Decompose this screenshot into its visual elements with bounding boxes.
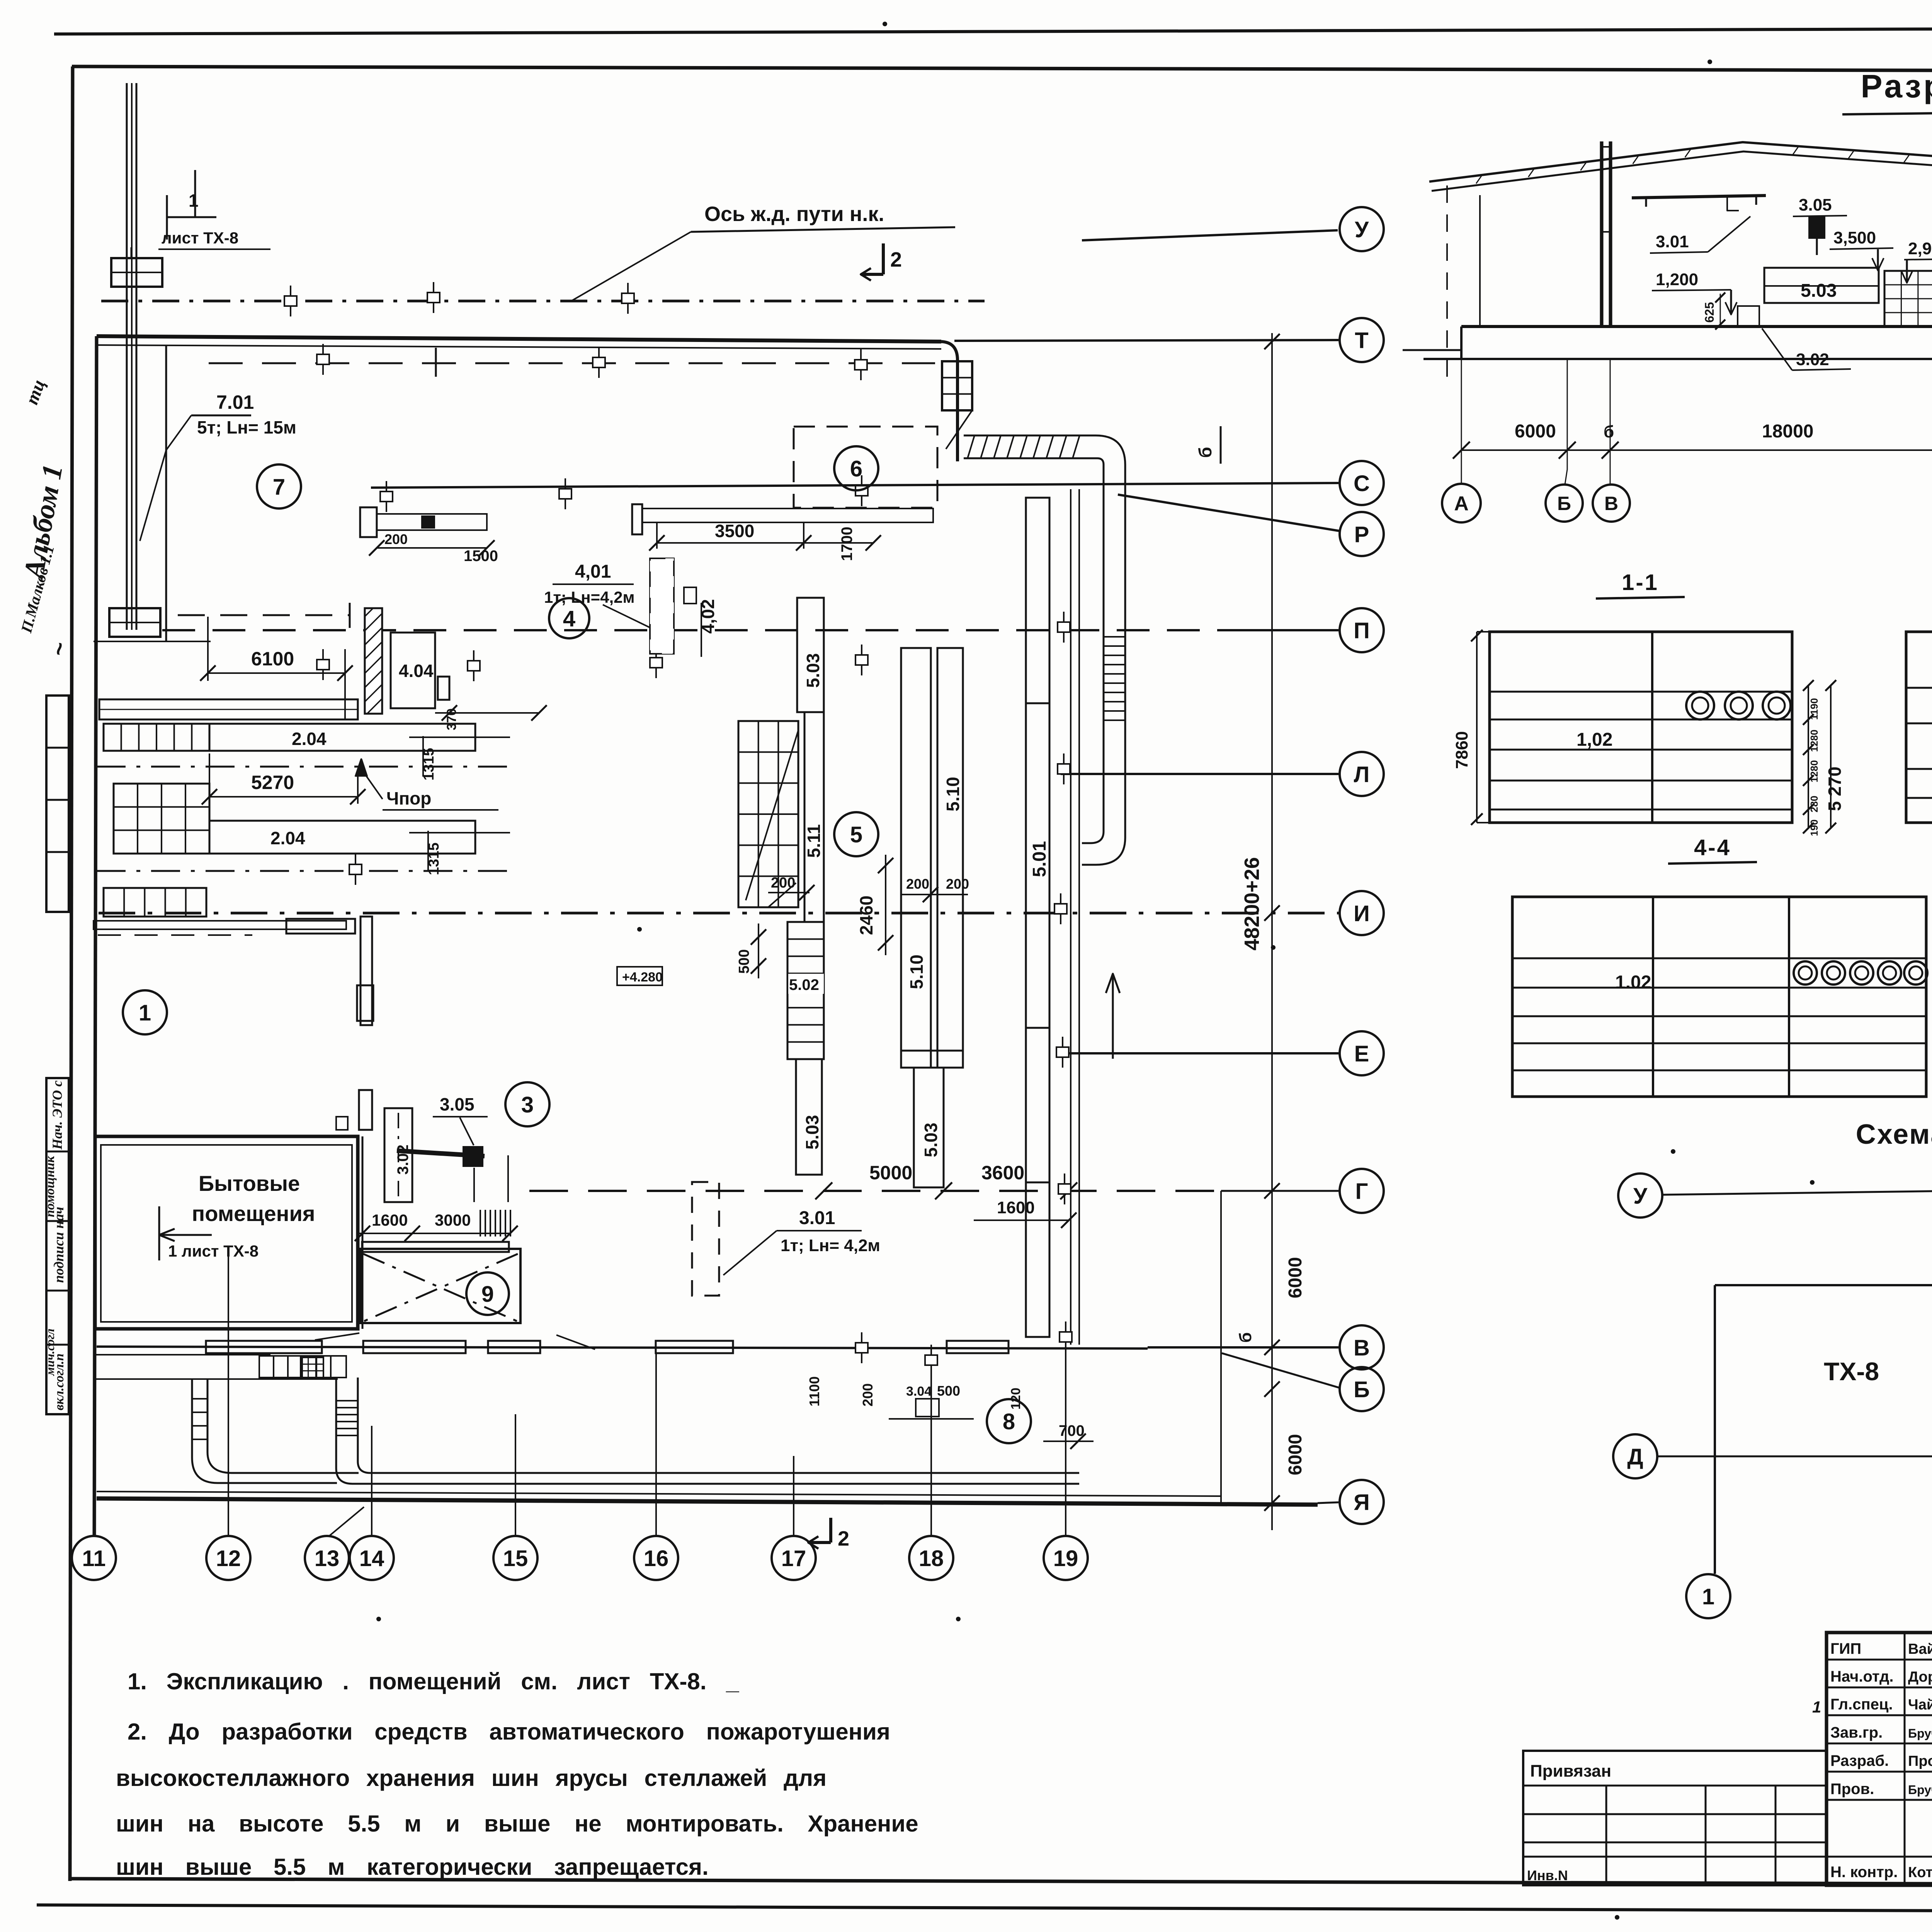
- signature table grid: [1904, 1633, 1906, 1885]
- svg-text:Зав.гр.: Зав.гр.: [1830, 1724, 1883, 1741]
- svg-text:1.02: 1.02: [1615, 972, 1651, 993]
- svg-text:1т; Lн=4,2м: 1т; Lн=4,2м: [544, 588, 635, 606]
- svg-text:3.01: 3.01: [1656, 232, 1689, 251]
- svg-text:Бручиловская: Бручиловская: [1908, 1783, 1932, 1797]
- svg-text:5.03: 5.03: [921, 1122, 941, 1157]
- bottom axis circle 16: [634, 1536, 678, 1580]
- svg-text:5 270: 5 270: [1825, 767, 1845, 811]
- hoist 3.05 beam and trolley: [397, 1151, 485, 1156]
- svg-text:1: 1: [139, 1000, 151, 1026]
- crane runway 7.01 rails: [126, 83, 128, 630]
- svg-text:Р: Р: [1354, 522, 1369, 547]
- svg-text:Дорош: Дорош: [1908, 1669, 1932, 1685]
- svg-text:4,01: 4,01: [575, 561, 611, 582]
- axis b tick near C: [1220, 426, 1222, 464]
- svg-text:6000: 6000: [1285, 1257, 1306, 1298]
- room Бытовые помещения: [95, 1136, 358, 1329]
- door swing marks: [315, 1333, 359, 1340]
- svg-text:13: 13: [315, 1546, 340, 1571]
- svg-text:11: 11: [82, 1546, 105, 1571]
- dashed hoist zone 4.02: [650, 558, 674, 654]
- svg-text:Т: Т: [1355, 328, 1368, 353]
- svg-text:19: 19: [1053, 1546, 1078, 1571]
- up arrow near axis E: [1112, 974, 1114, 1059]
- svg-text:2,960: 2,960: [1908, 239, 1932, 258]
- sheet frame border: [72, 66, 1932, 72]
- bottom axis circle 11: [72, 1536, 116, 1580]
- section dimension line: [1461, 449, 1932, 451]
- grid rack 5.11: [738, 721, 798, 907]
- svg-text:1: 1: [1812, 1698, 1821, 1716]
- svg-text:6000: 6000: [1515, 421, 1556, 442]
- circle 4 tag: [549, 598, 589, 638]
- svg-text:5270: 5270: [251, 772, 294, 793]
- svg-text:1 лист ТХ-8: 1 лист ТХ-8: [168, 1242, 259, 1260]
- svg-text:В: В: [1354, 1335, 1370, 1361]
- svg-text:14: 14: [359, 1546, 384, 1571]
- bottom axis circle 17: [772, 1536, 816, 1580]
- bottom axis circle 14: [350, 1536, 394, 1580]
- svg-text:200: 200: [946, 876, 969, 892]
- rack strip row A: [99, 699, 358, 719]
- rack 5.02 segmented: [787, 922, 824, 1059]
- rack 5.03 lower-mid: [914, 1068, 944, 1187]
- svg-text:высокостеллажного хранения: высокостеллажного хранения шин ярусы сте…: [116, 1765, 827, 1791]
- svg-text:1,02: 1,02: [1577, 730, 1612, 750]
- svg-text:Е: Е: [1354, 1041, 1369, 1066]
- svg-text:б: б: [1236, 1332, 1255, 1343]
- section wall axis Б-В: [1600, 141, 1604, 327]
- inner wall line left: [165, 345, 167, 641]
- svg-text:Я: Я: [1354, 1490, 1370, 1515]
- scheme circle У left: [1618, 1173, 1662, 1218]
- svg-text:1190: 1190: [1808, 698, 1820, 720]
- svg-text:мич.согл: мич.согл: [43, 1328, 57, 1376]
- svg-text:9: 9: [481, 1282, 494, 1307]
- roof outer line: [1429, 142, 1932, 185]
- dim 1315 row2: [427, 831, 429, 871]
- wall axis В hatched segments: [97, 1347, 1148, 1349]
- scan specks: [883, 22, 887, 26]
- svg-text:5.03: 5.03: [803, 653, 823, 688]
- rack 2.04 row 1: [209, 724, 475, 751]
- circle 5 tag: [834, 812, 878, 856]
- svg-text:Чпор: Чпор: [386, 788, 431, 808]
- svg-text:700: 700: [1059, 1422, 1085, 1439]
- svg-text:Привязан: Привязан: [1530, 1762, 1611, 1781]
- svg-text:Пров.: Пров.: [1830, 1781, 1874, 1798]
- svg-text:подписи нач: подписи нач: [51, 1207, 66, 1283]
- svg-text:3600: 3600: [981, 1162, 1024, 1184]
- circle 1 room tag: [123, 990, 167, 1034]
- bottom axis circle 12: [206, 1536, 250, 1580]
- pedestal 3.02 section: [1738, 306, 1759, 327]
- svg-text:190: 190: [1808, 820, 1820, 836]
- svg-text:1280: 1280: [1808, 730, 1820, 752]
- svg-text:Чайка: Чайка: [1908, 1697, 1932, 1713]
- dim 6100: [208, 672, 345, 674]
- svg-text:6000: 6000: [1285, 1434, 1306, 1475]
- wall axis T top: [97, 336, 941, 342]
- svg-text:200: 200: [860, 1383, 876, 1406]
- cell rack row 3: [104, 888, 206, 917]
- scheme axis У line: [1662, 1185, 1932, 1195]
- section 4-4 tyre circles: [1794, 961, 1817, 985]
- svg-text:2.04: 2.04: [270, 828, 305, 848]
- svg-text:1: 1: [1702, 1584, 1714, 1609]
- svg-text:1: 1: [189, 190, 199, 211]
- svg-text:5.10: 5.10: [943, 777, 963, 811]
- equipment box 5.03 left section: [1764, 268, 1879, 303]
- svg-text:Бытовые: Бытовые: [199, 1171, 300, 1196]
- runway top buffer stop: [111, 258, 162, 287]
- grid rack 5.02 section: [1884, 271, 1932, 327]
- svg-text:1100: 1100: [806, 1376, 822, 1406]
- svg-text:1,200: 1,200: [1656, 270, 1698, 289]
- svg-text:Схема совмещения листов: Схема совмещения листов: [1856, 1119, 1932, 1150]
- corridor walls: [357, 1136, 359, 1329]
- railway axis dash-dot line: [101, 300, 985, 303]
- svg-text:1280: 1280: [1808, 760, 1820, 782]
- svg-text:Вайсбанд: Вайсбанд: [1908, 1641, 1932, 1657]
- svg-text:ТХ-8: ТХ-8: [1824, 1357, 1879, 1386]
- rack 5.03 lower-left: [796, 1059, 822, 1175]
- circle 6 tag with dashed zone: [794, 427, 937, 508]
- svg-text:1600: 1600: [372, 1211, 408, 1229]
- svg-text:18: 18: [919, 1546, 944, 1571]
- svg-text:помещения: помещения: [192, 1201, 315, 1226]
- rack 5.10 left: [901, 648, 931, 1068]
- svg-text:В: В: [1604, 493, 1618, 514]
- circle 3 tag: [505, 1082, 549, 1126]
- svg-text:1700: 1700: [838, 527, 855, 561]
- section 1-1 left dim 7860: [1476, 632, 1478, 823]
- axis E line and circle: [1059, 1052, 1338, 1054]
- svg-text:Г: Г: [1355, 1179, 1368, 1204]
- wall axis Я bottom: [97, 1498, 1318, 1505]
- column symbols mid row: [386, 481, 387, 512]
- axis Г dashed line and circle: [529, 1190, 1221, 1192]
- wall corner rounded top-right: [941, 342, 957, 461]
- svg-text:5.01: 5.01: [1029, 841, 1050, 877]
- hoist trolley 3.05 section: [1808, 216, 1825, 239]
- svg-text:5.03: 5.03: [802, 1115, 822, 1150]
- scheme axis Д: [1658, 1456, 1932, 1458]
- svg-text:П: П: [1354, 618, 1370, 643]
- rack 5.01 long vertical: [1026, 498, 1049, 1337]
- axis Л line and circle: [1061, 773, 1338, 775]
- svg-text:У: У: [1633, 1184, 1648, 1209]
- svg-text:5: 5: [850, 822, 862, 847]
- svg-text:625: 625: [1702, 302, 1716, 323]
- svg-text:1т; Lн= 4,2м: 1т; Lн= 4,2м: [781, 1236, 880, 1255]
- svg-text:3.05: 3.05: [1799, 196, 1832, 214]
- stair hatch band: [480, 1210, 481, 1236]
- svg-text:Нач. ЭТО с: Нач. ЭТО с: [49, 1080, 65, 1150]
- svg-text:1-1: 1-1: [1622, 570, 1659, 595]
- svg-text:7.01: 7.01: [216, 391, 254, 413]
- label 625 vertical: [1720, 294, 1721, 327]
- rack 2.04 row 2: [209, 821, 475, 854]
- left wall axis 11: [94, 336, 97, 1536]
- axis И dash-dot line and circle: [99, 912, 1338, 915]
- scheme circle 1: [1686, 1574, 1730, 1618]
- marker Чпор: [355, 759, 367, 777]
- cell rack row 1: [104, 724, 209, 751]
- svg-text:1315: 1315: [421, 748, 437, 781]
- svg-text:+4.280: +4.280: [622, 970, 663, 985]
- vertical line x3160: [1220, 1191, 1222, 1505]
- svg-text:6100: 6100: [251, 648, 294, 670]
- paper bottom edge: [37, 1905, 1932, 1913]
- svg-text:3.02: 3.02: [1796, 350, 1829, 369]
- svg-text:Котенко: Котенко: [1908, 1864, 1932, 1881]
- svg-text:4: 4: [563, 606, 575, 631]
- svg-text:8: 8: [1003, 1409, 1015, 1434]
- axis T circle: [954, 340, 1338, 341]
- section 1-1 rack box: [1490, 632, 1792, 823]
- svg-text:б: б: [1195, 447, 1215, 458]
- dashed line below rail: [209, 362, 935, 364]
- svg-text:18000: 18000: [1762, 421, 1813, 442]
- svg-text:6: 6: [850, 456, 862, 481]
- bottom axis circle 18: [909, 1536, 953, 1580]
- section axis circle В: [1610, 450, 1611, 485]
- svg-text:12: 12: [216, 1546, 241, 1571]
- svg-text:7: 7: [273, 474, 285, 500]
- section left eave column dashes: [1446, 185, 1448, 388]
- conveyor band top horizontal: [964, 435, 1096, 437]
- svg-text:Н. контр.: Н. контр.: [1830, 1864, 1898, 1881]
- road left stub: [192, 1379, 337, 1483]
- roof tick marks: [1476, 176, 1481, 184]
- svg-text:И: И: [1354, 901, 1370, 926]
- svg-text:5.10: 5.10: [906, 954, 927, 989]
- svg-text:200: 200: [771, 875, 795, 891]
- section 1-1 tyre circles: [1686, 692, 1714, 719]
- svg-text:Разрез 2-2: Разрез 2-2: [1861, 68, 1932, 104]
- svg-text:2: 2: [838, 1527, 849, 1550]
- svg-text:200: 200: [906, 876, 929, 892]
- svg-text:3.05: 3.05: [440, 1094, 474, 1114]
- monorail column 4.04 hatched: [365, 608, 382, 714]
- svg-text:48200+26: 48200+26: [1240, 857, 1264, 951]
- bottom axis circle 15: [493, 1536, 537, 1580]
- circle 7 tag: [257, 464, 301, 509]
- runway bottom buffer stop: [109, 608, 160, 637]
- column symbol on rail axis: [290, 286, 291, 316]
- upper mid rack small with hatched end: [360, 507, 377, 537]
- svg-text:3.04: 3.04: [906, 1384, 932, 1399]
- section foundation: [1460, 327, 1463, 359]
- title block outer box: [1827, 1633, 1932, 1885]
- svg-text:5.03: 5.03: [1801, 281, 1837, 301]
- bottom axis circle 19: [1044, 1536, 1088, 1580]
- strip below room: [95, 1354, 270, 1355]
- svg-text:Б: Б: [1354, 1377, 1370, 1402]
- section axis circle Б: [1565, 450, 1567, 485]
- circle 9 tag: [466, 1272, 509, 1315]
- dim 1315 row1: [422, 736, 424, 777]
- rack 5.03 upper: [797, 598, 824, 712]
- svg-text:3,500: 3,500: [1833, 228, 1876, 247]
- svg-text:500: 500: [937, 1383, 960, 1399]
- svg-text:5.02: 5.02: [789, 976, 819, 993]
- svg-text:5т; Lн= 15м: 5т; Lн= 15м: [197, 417, 296, 437]
- svg-text:С: С: [1354, 471, 1370, 496]
- svg-text:лист ТХ-8: лист ТХ-8: [162, 229, 238, 247]
- svg-text:Б: Б: [1557, 493, 1571, 514]
- svg-text:280: 280: [1808, 796, 1820, 812]
- section 4-4 rack box: [1512, 897, 1926, 1097]
- svg-text:15: 15: [503, 1546, 528, 1571]
- svg-text:Гл.спец.: Гл.спец.: [1830, 1696, 1893, 1713]
- svg-text:Прохорчук: Прохорчук: [1908, 1753, 1932, 1769]
- svg-text:4.04: 4.04: [399, 661, 434, 681]
- conveyor band curve and vertical: [1082, 435, 1125, 865]
- svg-text:500: 500: [736, 949, 752, 974]
- road corridor bottom: [335, 1378, 337, 1468]
- section monorail left: [1632, 196, 1766, 198]
- section axis circle А: [1461, 450, 1462, 484]
- svg-text:17: 17: [781, 1546, 806, 1571]
- shaft with grid near corner: [942, 361, 972, 410]
- wall lines axis 19: [1070, 489, 1071, 1345]
- dim 2460 vertical: [885, 855, 886, 955]
- dim 5270: [209, 796, 358, 798]
- svg-text:Д: Д: [1627, 1444, 1643, 1469]
- svg-text:370: 370: [444, 708, 459, 730]
- ladder hatch on conveyor: [1104, 636, 1125, 638]
- column symbols along wall T: [322, 344, 324, 375]
- svg-text:ГИП: ГИП: [1830, 1640, 1861, 1657]
- section 1-1 right dimension chain: [1808, 685, 1809, 828]
- svg-text:1600: 1600: [997, 1198, 1035, 1217]
- svg-text:У: У: [1355, 217, 1369, 242]
- svg-text:7860: 7860: [1452, 731, 1471, 769]
- svg-text:Инв.N: Инв.N: [1527, 1867, 1568, 1883]
- cell rack row 2: [114, 784, 209, 854]
- svg-text:3.01: 3.01: [799, 1208, 835, 1228]
- section mark 2 top: [882, 243, 885, 274]
- section 2-2 rack box: [1906, 632, 1932, 823]
- circle 8 tag: [987, 1399, 1031, 1443]
- vertical hatched strip x940: [361, 917, 372, 1025]
- hatched column strips left of stair: [357, 985, 373, 1021]
- axis P diagonal and circle: [1118, 495, 1339, 531]
- axis dash-dot row2: [97, 870, 510, 872]
- axis В line and circle: [1148, 1346, 1338, 1349]
- svg-text:4-4: 4-4: [1694, 835, 1731, 860]
- rack strip 5.11 column: [804, 712, 824, 922]
- svg-text:16: 16: [644, 1546, 669, 1571]
- axis Б circle and diagonal: [1222, 1353, 1340, 1388]
- svg-text:шин выше 5.5 м категори: шин выше 5.5 м категорически запрещается…: [116, 1854, 709, 1880]
- column symbols axis 19 wall: [1063, 612, 1065, 643]
- svg-text:3000: 3000: [435, 1211, 471, 1229]
- svg-text:Ось ж.д. пути н.к.: Ось ж.д. пути н.к.: [704, 202, 884, 226]
- platform room with X: [361, 1249, 520, 1323]
- axis dash-dot row1: [97, 766, 510, 768]
- dim marker 1 лист ТХ-8: [167, 216, 216, 218]
- rack 5.10 right: [937, 648, 963, 1068]
- svg-text:200: 200: [384, 531, 408, 547]
- left margin stamp boxes: [46, 696, 69, 912]
- svg-text:1500: 1500: [464, 548, 498, 565]
- svg-text:2460: 2460: [856, 896, 876, 935]
- bottom axis circle 13: [305, 1536, 349, 1580]
- svg-text:3: 3: [521, 1092, 534, 1117]
- upper mid rack long strip: [632, 504, 642, 534]
- right vertical dimension line 48200: [1271, 333, 1273, 1530]
- axis П dashed line and circle: [162, 629, 1221, 631]
- axis У line and circle: [1082, 230, 1338, 240]
- stair room 3.02: [384, 1108, 412, 1202]
- dashed hoist zone 3.01: [692, 1182, 719, 1296]
- svg-text:Л: Л: [1354, 762, 1370, 787]
- svg-text:5000: 5000: [869, 1162, 912, 1184]
- svg-text:2.04: 2.04: [292, 729, 327, 749]
- svg-text:Разраб.: Разраб.: [1830, 1752, 1889, 1769]
- svg-text:3500: 3500: [715, 521, 754, 541]
- svg-text:А: А: [1454, 493, 1469, 515]
- svg-text:б: б: [1604, 422, 1614, 441]
- dashed dim line upper-left: [178, 614, 350, 616]
- axis C line and circle: [371, 483, 1338, 488]
- roof inner line: [1432, 151, 1932, 195]
- svg-text:2. До разработки средств: 2. До разработки средств автоматического…: [128, 1719, 890, 1745]
- svg-text:5.11: 5.11: [804, 824, 824, 858]
- svg-text:шин на высоте 5.5 м и: шин на высоте 5.5 м и выше не монтироват…: [116, 1811, 918, 1837]
- svg-text:Нач.отд.: Нач.отд.: [1830, 1668, 1893, 1685]
- scheme outline ТХ-8 sheet: [1714, 1285, 1716, 1574]
- equipment 4.04: [391, 633, 435, 708]
- privyazan box: [1523, 1751, 1827, 1885]
- section mark 2 bottom: [829, 1518, 832, 1543]
- svg-text:2: 2: [890, 248, 902, 271]
- strip below row 3: [94, 921, 346, 929]
- sheet paper top edge: [54, 27, 1932, 34]
- svg-text:1. Экспликацию . помещений: 1. Экспликацию . помещений см. лист ТХ-8…: [128, 1668, 739, 1694]
- svg-text:помощник: помощник: [43, 1156, 57, 1217]
- section floor line: [1461, 325, 1932, 328]
- svg-text:Бручиловская: Бручиловская: [1908, 1726, 1932, 1740]
- section below-floor extension lines: [1461, 359, 1462, 450]
- boxed level mark +4.280: [617, 967, 662, 985]
